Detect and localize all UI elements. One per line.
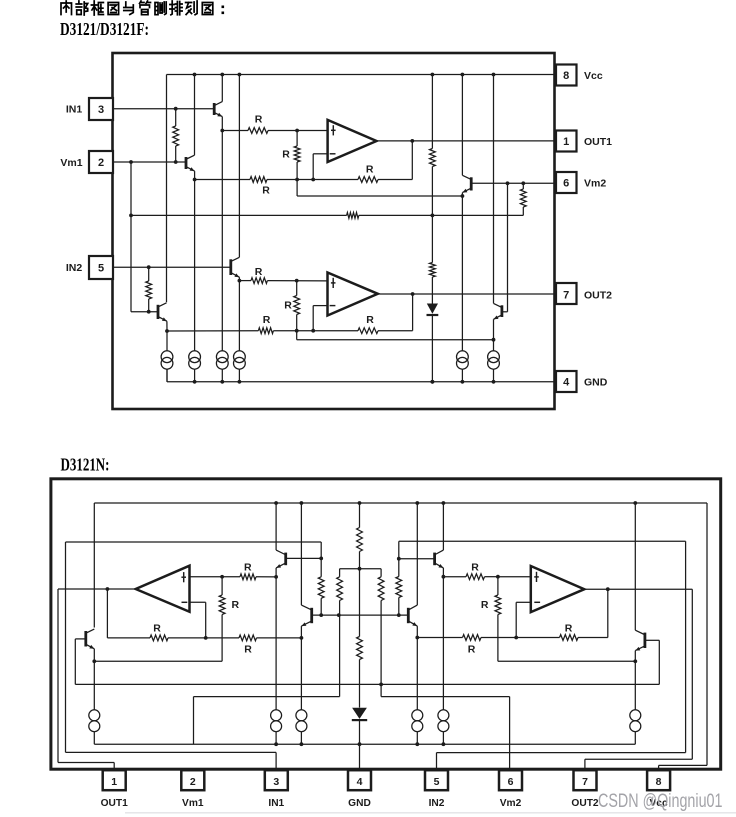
svg-text:R: R [284,300,292,312]
svg-text:R: R [481,599,489,611]
svg-text:IN2: IN2 [429,798,445,809]
svg-text:R: R [255,114,263,126]
svg-text:D3121N:: D3121N: [61,454,110,474]
svg-text:Vm2: Vm2 [500,798,522,809]
svg-text:IN1: IN1 [268,798,284,809]
svg-text:4: 4 [563,377,570,389]
svg-text:OUT2: OUT2 [584,290,612,302]
svg-text:7: 7 [563,290,569,302]
svg-text:6: 6 [563,178,569,190]
svg-text:5: 5 [434,776,440,788]
svg-text:IN2: IN2 [66,262,83,274]
svg-text:Vm1: Vm1 [182,798,204,809]
svg-text:R: R [366,163,374,175]
svg-text:GND: GND [348,798,371,809]
svg-text:2: 2 [98,157,104,169]
svg-text:GND: GND [584,377,608,389]
svg-text:OUT1: OUT1 [584,136,612,148]
svg-text:R: R [244,561,252,573]
svg-text:3: 3 [273,776,279,788]
svg-text:R: R [366,314,374,326]
svg-text:5: 5 [98,263,104,275]
svg-text:1: 1 [111,776,117,788]
svg-text:Vm2: Vm2 [584,178,606,190]
svg-text:7: 7 [582,776,588,788]
svg-text:R: R [282,149,290,161]
svg-text:R: R [471,561,479,573]
svg-text:R: R [232,599,240,611]
svg-text:R: R [255,266,263,278]
svg-text:8: 8 [656,776,662,788]
svg-text:R: R [263,314,271,326]
svg-text:OUT2: OUT2 [571,798,599,809]
svg-text:R: R [565,622,573,634]
svg-text:4: 4 [357,776,363,788]
svg-text:1: 1 [563,136,569,148]
svg-text:R: R [244,644,252,656]
svg-text:R: R [468,644,476,656]
svg-text:3: 3 [98,104,104,116]
svg-text:Vm1: Vm1 [60,157,82,169]
svg-text:R: R [262,184,270,196]
svg-text:OUT1: OUT1 [101,798,129,809]
svg-text:CSDN @Qingniu01: CSDN @Qingniu01 [598,791,723,812]
svg-text:2: 2 [190,776,196,788]
svg-text:6: 6 [508,776,514,788]
svg-text:R: R [153,622,161,634]
svg-text:D3121/D3121F:: D3121/D3121F: [60,19,149,39]
svg-text:8: 8 [563,70,569,82]
svg-text:Vcc: Vcc [584,70,603,82]
svg-text:IN1: IN1 [66,104,83,116]
